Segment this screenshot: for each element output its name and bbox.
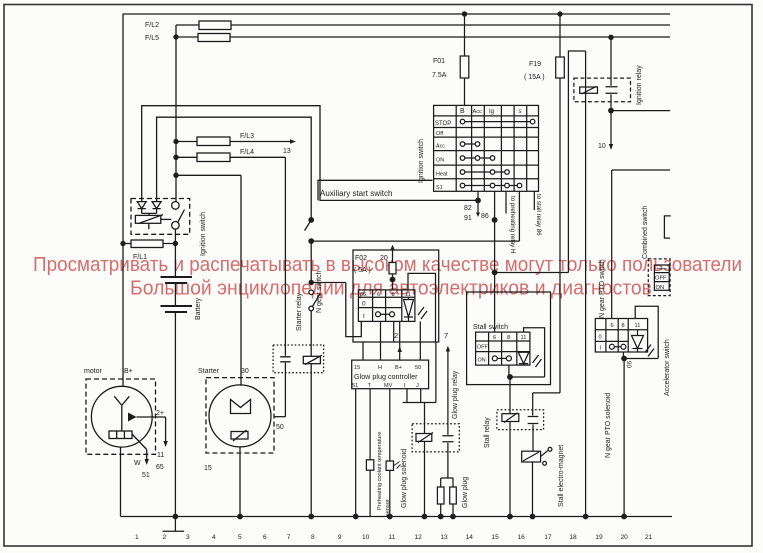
- svg-text:F19: F19: [529, 61, 541, 68]
- wire motor ground lead: [120, 447, 122, 517]
- starter dashed box: [206, 378, 274, 453]
- wire starter ground lead: [239, 447, 241, 517]
- svg-text:Starter relay: Starter relay: [296, 292, 303, 331]
- svg-text:17: 17: [544, 534, 552, 541]
- svg-text:20: 20: [621, 534, 629, 541]
- wire accelerator output node: [622, 352, 624, 359]
- diode D1: [137, 202, 146, 209]
- wire F01 feeder: [464, 14, 466, 105]
- node junction 86 wire: [492, 217, 498, 223]
- svg-text:82: 82: [464, 205, 472, 212]
- svg-text:15: 15: [354, 365, 360, 371]
- starter relay dotted box: [273, 345, 324, 373]
- wire combined switch feeder from right margin: [612, 170, 670, 319]
- svg-text:B+: B+: [395, 365, 402, 371]
- svg-text:H: H: [378, 365, 382, 371]
- motor stator Y symbol: [114, 396, 129, 431]
- stall relay coil: [502, 414, 519, 422]
- accelerator switch diode loop wire: [624, 306, 658, 358]
- wire controller B+ feed with up arrow: [399, 321, 401, 360]
- auxiliary start switch blade: [305, 220, 312, 231]
- svg-text:sensor: sensor: [385, 499, 391, 516]
- svg-text:Acc: Acc: [436, 144, 445, 150]
- svg-text:15: 15: [492, 534, 500, 541]
- stall relay contact: [528, 417, 539, 452]
- svg-text:( 15A ): ( 15A ): [524, 74, 545, 81]
- ground symbol: [163, 517, 185, 532]
- glow plug relay wire with up arrow: [447, 352, 449, 424]
- stall switch diode: [518, 352, 529, 366]
- node bus stall relay: [507, 514, 513, 520]
- diode D2: [152, 202, 161, 209]
- wire solenoid coil to ground bus: [424, 441, 426, 516]
- wire stall switch output node: [509, 365, 510, 414]
- svg-text:F/L2: F/L2: [145, 22, 159, 29]
- node aux switch top: [308, 217, 314, 223]
- wire F/L3 branch with terminating arrow 13: [176, 141, 290, 143]
- wire terminal 10 arrow: [610, 111, 612, 144]
- svg-text:8: 8: [622, 323, 625, 329]
- wire glow plug split: [441, 478, 453, 517]
- node junction ignition relay output: [608, 108, 614, 114]
- glow plug solenoid valve symbol: [386, 461, 393, 470]
- node bus harness leg: [583, 514, 589, 520]
- svg-text:7: 7: [287, 534, 291, 541]
- wire diode outputs join bar: [142, 209, 157, 216]
- fuse F/L5: [198, 34, 230, 42]
- ignition switch left unit dashed box: [131, 199, 190, 235]
- wire glow table column 8 stub: [393, 321, 395, 342]
- svg-text:OFF: OFF: [655, 276, 667, 282]
- svg-text:F02: F02: [355, 255, 367, 262]
- ignition relay dashed box: [574, 78, 631, 102]
- svg-text:Ignition relay: Ignition relay: [636, 65, 643, 105]
- svg-text:3: 3: [186, 534, 190, 541]
- svg-text:ON: ON: [656, 285, 665, 291]
- svg-text:18: 18: [569, 534, 577, 541]
- wire to glow plug solenoid coil: [424, 403, 426, 434]
- N gear PTO OFF/ON table: [654, 265, 669, 290]
- svg-text:11: 11: [389, 534, 396, 541]
- svg-text:2+: 2+: [156, 410, 164, 417]
- wire to stall relay 86 stub: [533, 191, 535, 210]
- node junction N-gear branch: [309, 280, 314, 285]
- svg-text:N gear PTO switch: N gear PTO switch: [599, 259, 606, 318]
- svg-text:90: 90: [625, 361, 632, 368]
- wire switch column through contacts: [174, 200, 177, 244]
- stall switch hatch marks: [533, 355, 542, 367]
- wire harness loop verticals: [568, 51, 585, 517]
- stall electro-magnet body: [522, 451, 541, 462]
- starter M symbol: [231, 400, 251, 414]
- stall electro-magnet lever: [541, 450, 549, 456]
- node junction starter feed tap: [173, 173, 178, 178]
- wire controller pin T through sensor: [369, 389, 371, 517]
- glow plug solenoid coil: [416, 434, 432, 442]
- node junction F/L3 tap: [173, 139, 178, 144]
- svg-text:11: 11: [521, 335, 527, 341]
- starter relay contact gap: [280, 157, 290, 416]
- svg-text:2: 2: [163, 534, 167, 541]
- accelerator switch contacts: [614, 346, 621, 348]
- svg-text:ON: ON: [436, 158, 444, 164]
- node junction stall switch output: [507, 374, 513, 380]
- wire stall relay coil to ground bus: [509, 422, 511, 517]
- ignition table Heat row contacts: [465, 171, 505, 173]
- glow table hatch marks: [418, 307, 427, 319]
- svg-text:11: 11: [157, 452, 164, 459]
- wire aux switch column to starter relay coil and ground: [310, 241, 312, 516]
- svg-text:20: 20: [380, 255, 388, 262]
- glow table I row contacts: [380, 313, 390, 315]
- svg-text:50: 50: [415, 365, 421, 371]
- wire bottom ground bus: [121, 516, 673, 518]
- svg-text:F/L5: F/L5: [145, 35, 159, 42]
- wire controller 15 feed: [362, 342, 364, 360]
- switch blade of left ignition switch: [178, 210, 185, 222]
- node junction F01 tap: [462, 11, 467, 16]
- svg-text:30: 30: [241, 368, 249, 375]
- N gear switch blade: [313, 294, 320, 306]
- ignition table STOP row contacts: [465, 121, 531, 123]
- wire to preheating relay H stub: [505, 191, 507, 213]
- node bus controller MV: [387, 514, 393, 520]
- svg-text:Glow plug relay: Glow plug relay: [452, 370, 459, 419]
- svg-text:14: 14: [466, 534, 474, 541]
- node junction 82/91: [475, 198, 481, 204]
- svg-text:Stall relay: Stall relay: [484, 417, 491, 448]
- starter body circle: [209, 385, 271, 447]
- stall switch outer box: [467, 292, 551, 385]
- svg-text:15: 15: [204, 465, 212, 472]
- svg-text:Ignition switch: Ignition switch: [418, 139, 425, 183]
- svg-text:21: 21: [645, 534, 653, 541]
- node junction F02 out: [390, 277, 396, 283]
- node junction F/L1 left: [120, 241, 125, 246]
- svg-text:91: 91: [464, 215, 472, 222]
- wire controller pin 51 to ground bus: [355, 389, 357, 517]
- N gear PTO combined dashed box: [648, 259, 670, 296]
- svg-text:Battery: Battery: [195, 297, 202, 320]
- glow table diode: [404, 297, 414, 321]
- node bus starter relay: [308, 514, 314, 520]
- fuse F19: [556, 57, 565, 78]
- svg-text:10: 10: [362, 534, 370, 541]
- node junction stall feed: [492, 270, 498, 276]
- svg-text:F/L3: F/L3: [240, 133, 254, 140]
- svg-text:J: J: [416, 383, 419, 389]
- svg-text:65: 65: [156, 464, 164, 471]
- node junction F/L5 tap: [173, 34, 178, 39]
- svg-text:N gear switch: N gear switch: [316, 270, 323, 313]
- contact circle lower of left ignition switch: [172, 222, 180, 230]
- svg-text:Stall switch: Stall switch: [473, 324, 508, 331]
- svg-text:50: 50: [276, 424, 284, 431]
- accelerator switch diode: [632, 330, 644, 352]
- svg-text:13: 13: [283, 148, 291, 155]
- svg-text:to preheating relay H: to preheating relay H: [509, 196, 516, 253]
- wire coil to lower contact: [161, 218, 172, 220]
- svg-text:W: W: [134, 460, 141, 467]
- wire left feeder x=123 down to motor B+: [122, 14, 124, 386]
- svg-text:Stall electro-magnet: Stall electro-magnet: [558, 445, 565, 507]
- svg-text:Glow plug solenoid: Glow plug solenoid: [401, 449, 408, 508]
- wire F19 feeder: [533, 14, 560, 416]
- svg-text:13: 13: [440, 534, 448, 541]
- svg-text:Accelerator switch: Accelerator switch: [664, 339, 671, 396]
- svg-text:11: 11: [405, 292, 411, 298]
- svg-text:19: 19: [595, 534, 603, 541]
- svg-text:F01: F01: [433, 58, 445, 65]
- glow plug resistor left: [437, 487, 444, 504]
- svg-text:F/L1: F/L1: [133, 254, 147, 261]
- svg-text:Combined switch: Combined switch: [642, 206, 649, 259]
- preheating coolant temperature sensor: [366, 460, 373, 470]
- node junction F19 tap: [557, 11, 562, 16]
- combined switch connector bracket: [664, 216, 670, 238]
- wire controller pin MV through solenoid valve: [389, 389, 391, 517]
- svg-text:5: 5: [238, 534, 242, 541]
- wire ignition table 82/91 stub: [477, 191, 479, 212]
- motor regulator 3-cell rectangle: [109, 431, 132, 439]
- svg-text:Ignition switch: Ignition switch: [200, 212, 207, 256]
- svg-text:motor: motor: [84, 368, 103, 375]
- svg-text:0: 0: [599, 335, 602, 341]
- svg-text:Glow plug: Glow plug: [462, 477, 469, 508]
- svg-text:Ig: Ig: [489, 109, 494, 115]
- contact circle upper of left ignition switch: [172, 202, 180, 210]
- wire N gear PTO solenoid to ground bus: [623, 359, 625, 517]
- node bus motor: [173, 514, 179, 520]
- svg-text:8: 8: [392, 292, 395, 298]
- stall switch ON row contacts: [497, 357, 507, 359]
- svg-text:4: 4: [212, 534, 216, 541]
- wire A: diode1 feed loop to ignition switch B: [142, 106, 478, 202]
- node aux switch bottom: [308, 238, 314, 244]
- wire controller pins J loop: [403, 342, 436, 403]
- svg-text:ON: ON: [478, 358, 486, 364]
- wire F/L4 branch: [176, 156, 285, 158]
- svg-text:11: 11: [635, 323, 641, 329]
- wire B: diode2 feed loop to aux switch node: [157, 117, 312, 220]
- svg-text:7: 7: [444, 331, 448, 340]
- svg-text:0: 0: [362, 301, 366, 308]
- wire battery to starter 30: [176, 175, 241, 385]
- wire ignition relay output to right margin: [611, 110, 670, 112]
- svg-text:Heat: Heat: [436, 172, 448, 178]
- node bus controller 51: [353, 514, 359, 520]
- svg-text:B: B: [460, 108, 465, 115]
- svg-text:8: 8: [311, 534, 315, 541]
- glow plug solenoid dashed box: [412, 424, 459, 452]
- glow plug controller outer box: [353, 250, 439, 342]
- svg-text:8: 8: [507, 335, 510, 341]
- svg-text:9: 9: [338, 534, 342, 541]
- glow controller table grid: [358, 290, 415, 322]
- motor body circle: [91, 386, 152, 447]
- motor W terminal stub arrow: [132, 434, 147, 459]
- relay coil of left ignition switch: [135, 215, 160, 223]
- ignition relay contact: [606, 37, 618, 110]
- wire battery top lead: [174, 244, 176, 278]
- node junction accelerator output: [621, 356, 627, 362]
- svg-text:Auxiliary start switch: Auxiliary start switch: [320, 189, 392, 198]
- wire branch to glow controller 86 loop: [311, 283, 361, 337]
- ignition table header Acc: [473, 109, 483, 115]
- wire harness left leg to stall switch feed: [495, 272, 569, 274]
- svg-text:Off: Off: [436, 131, 444, 137]
- node junction ignition relay tap: [608, 35, 613, 40]
- starter solenoid contact rectangle: [231, 432, 248, 440]
- svg-text:( 5A ): ( 5A ): [354, 267, 371, 274]
- wire aux bottom to ignition table s column: [311, 191, 519, 241]
- node bus PTO solenoid: [621, 514, 627, 520]
- svg-text:S1: S1: [436, 185, 443, 191]
- wire top bus L1: [123, 13, 670, 15]
- node bus glow plug right: [450, 514, 456, 520]
- ignition switch table grid: [434, 105, 539, 191]
- wire coil bottom stub: [148, 223, 150, 229]
- svg-text:12: 12: [415, 534, 423, 541]
- svg-text:86: 86: [481, 213, 489, 220]
- fuse F/L4: [197, 153, 230, 162]
- N gear switch lower contact: [309, 306, 314, 311]
- accelerator switch table grid: [595, 319, 647, 353]
- ignition relay coil: [580, 87, 598, 93]
- svg-text:6: 6: [493, 335, 496, 341]
- stall switch diode loop wire: [510, 328, 545, 377]
- glow controller relay sub-box: [408, 273, 436, 342]
- svg-text:10: 10: [598, 143, 606, 150]
- glow plug resistor right: [450, 487, 457, 504]
- svg-text:STOP: STOP: [435, 121, 451, 127]
- accelerator switch hatch marks: [645, 345, 654, 357]
- svg-text:51: 51: [142, 472, 150, 479]
- svg-text:T: T: [368, 383, 372, 389]
- svg-text:Preheating coolant temperature: Preheating coolant temperature: [377, 432, 383, 510]
- wire sub-box to controller 50: [419, 321, 421, 360]
- node junction F/L4 tap: [173, 155, 178, 160]
- wire F/L5 branch: [176, 36, 670, 38]
- svg-text:MV: MV: [384, 383, 393, 389]
- ignition table S1 row contacts: [465, 185, 517, 187]
- motor output arrow to 2+: [128, 413, 137, 422]
- motor dashed box: [86, 379, 156, 454]
- svg-text:16: 16: [518, 534, 526, 541]
- stall relay dashed box: [497, 410, 544, 430]
- wire ignition table 86 column down to stall feed: [494, 191, 496, 332]
- fuse F/L3: [197, 137, 230, 146]
- svg-text:7.5A: 7.5A: [432, 72, 447, 79]
- starter relay coil: [303, 356, 320, 363]
- svg-text:86: 86: [360, 292, 366, 298]
- svg-text:1: 1: [135, 534, 139, 541]
- N gear switch upper contact: [309, 290, 314, 295]
- ignition table ON row contacts: [465, 157, 490, 159]
- node bus solenoid coil: [422, 514, 428, 520]
- svg-text:B+: B+: [124, 368, 133, 375]
- svg-text:51: 51: [352, 383, 358, 389]
- battery cell plates: [161, 277, 193, 312]
- svg-text:Glow plug controller: Glow plug controller: [354, 372, 418, 381]
- wire battery bottom lead to ground bus: [174, 312, 176, 517]
- node bus stall electro-magnet: [530, 514, 536, 520]
- svg-text:F/L4: F/L4: [240, 149, 254, 156]
- stall switch table grid: [476, 332, 530, 365]
- fuse F01: [460, 56, 469, 78]
- wire F/L2 branch: [176, 25, 670, 37]
- fuse F/L2: [199, 21, 231, 30]
- glow plug controller box: [352, 360, 429, 389]
- svg-text:s: s: [519, 109, 522, 115]
- node bus glow plug left: [438, 514, 444, 520]
- node junction F/L1 right: [173, 241, 178, 246]
- fuse F/L1: [131, 240, 163, 248]
- wire glow table column 6 to controller H: [380, 321, 382, 360]
- svg-text:Starter: Starter: [198, 368, 220, 375]
- svg-text:2: 2: [394, 331, 398, 340]
- auxiliary start switch label box: [318, 180, 433, 200]
- svg-text:6: 6: [263, 534, 267, 541]
- fuse F02 with terminal 20 arrow: [392, 250, 394, 263]
- svg-text:I: I: [363, 313, 365, 320]
- wire battery column x=176: [175, 37, 177, 200]
- svg-text:Acc: Acc: [473, 109, 483, 115]
- svg-text:6: 6: [611, 323, 614, 329]
- svg-text:to stall relay 86: to stall relay 86: [535, 194, 542, 236]
- svg-text:N gear PTO solenoid: N gear PTO solenoid: [605, 393, 612, 458]
- svg-text:6: 6: [377, 292, 380, 298]
- ignition table Acc row contacts: [465, 143, 475, 145]
- wire F/L1 row: [123, 243, 175, 245]
- svg-text:OFF: OFF: [477, 345, 488, 351]
- glow plug solenoid contact: [442, 424, 453, 478]
- wire starter 50 terminal from relay: [274, 416, 285, 418]
- wire stall electro-magnet to ground bus: [532, 462, 534, 517]
- node bus starter: [237, 514, 243, 520]
